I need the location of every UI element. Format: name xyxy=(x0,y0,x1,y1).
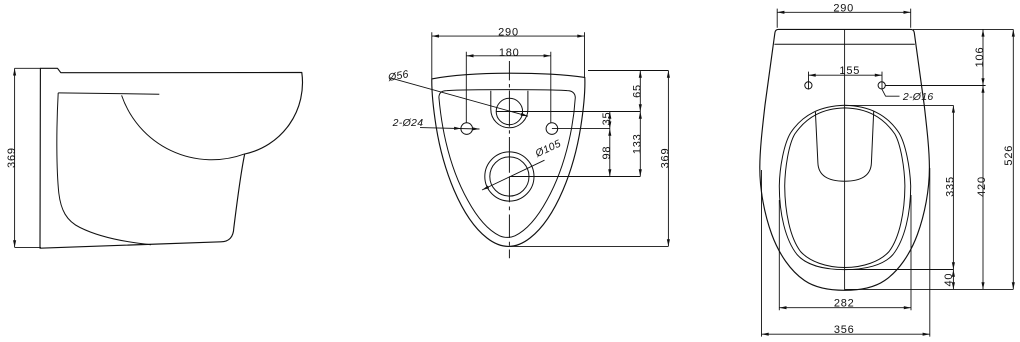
dim 155 line xyxy=(809,72,883,90)
hole D24 right xyxy=(546,123,558,135)
extension top 369 xyxy=(588,70,668,72)
side view outline xyxy=(40,68,303,248)
dim 526 line xyxy=(1012,29,1014,289)
extension hole line xyxy=(885,85,985,87)
dim 369 line middle xyxy=(667,71,669,247)
dim 290 right view xyxy=(777,9,911,28)
svg-text:335: 335 xyxy=(945,176,957,197)
svg-text:369: 369 xyxy=(6,147,18,168)
inlet boss xyxy=(491,91,528,128)
seat outer oval xyxy=(779,105,910,269)
svg-text:290: 290 xyxy=(833,3,854,15)
svg-text:40: 40 xyxy=(943,273,955,287)
dim 290 line xyxy=(432,32,585,79)
svg-text:155: 155 xyxy=(839,65,860,77)
svg-text:35: 35 xyxy=(601,112,613,126)
svg-text:526: 526 xyxy=(1003,145,1015,166)
dim 180 line xyxy=(466,52,551,123)
leader D56 xyxy=(390,78,528,116)
trap curve xyxy=(57,93,151,245)
dim 65 133 line xyxy=(639,71,641,177)
svg-text:282: 282 xyxy=(834,298,855,310)
dim 369 line xyxy=(14,68,16,247)
seat inner oval xyxy=(785,108,905,268)
bowl interior arc xyxy=(122,95,245,159)
dim 335 40 line xyxy=(952,105,954,289)
svg-text:133: 133 xyxy=(632,133,644,154)
svg-text:180: 180 xyxy=(499,47,520,59)
dim 35 98 line xyxy=(609,112,611,177)
hole D24 left xyxy=(461,123,473,135)
extension seat top xyxy=(845,104,953,106)
extension D56 center xyxy=(496,111,640,113)
center line vertical xyxy=(508,61,510,258)
extension D105 center xyxy=(509,176,640,178)
leader 2-D24 xyxy=(420,128,480,129)
leader D105 xyxy=(482,160,545,190)
svg-text:2-Ø24: 2-Ø24 xyxy=(392,117,424,129)
center line xyxy=(844,29,846,290)
dim 369 extension bottom xyxy=(15,246,41,248)
svg-text:420: 420 xyxy=(976,176,988,197)
extension seat bottom xyxy=(845,269,954,271)
hole D16 left xyxy=(805,82,812,89)
svg-text:369: 369 xyxy=(660,148,672,169)
svg-text:290: 290 xyxy=(498,27,519,39)
extension bottom xyxy=(510,245,668,247)
dim 282 xyxy=(779,195,911,310)
leader 2-D16 xyxy=(882,89,900,96)
hole D16 right xyxy=(878,82,885,89)
svg-text:65: 65 xyxy=(632,84,644,98)
dim 369 extension top xyxy=(15,67,41,69)
tank line xyxy=(774,43,914,45)
extension top right xyxy=(913,28,1013,30)
svg-text:2-Ø16: 2-Ø16 xyxy=(902,91,934,103)
top view body outline xyxy=(760,29,930,290)
hole D105 outer xyxy=(485,152,534,201)
extension body bottom xyxy=(845,288,1014,290)
rim inner line xyxy=(58,93,159,94)
bowl pocket horseshoe xyxy=(815,111,873,181)
extension D24 center xyxy=(552,128,610,130)
svg-text:106: 106 xyxy=(974,47,986,68)
dim 356 xyxy=(762,168,930,337)
svg-text:98: 98 xyxy=(601,146,613,160)
back view inner outline xyxy=(439,90,575,238)
svg-text:356: 356 xyxy=(834,324,855,336)
back view outer outline xyxy=(432,73,585,246)
hole D56 xyxy=(496,98,522,124)
dim 106 420 line xyxy=(982,29,984,289)
hole D105 inner xyxy=(490,157,529,196)
